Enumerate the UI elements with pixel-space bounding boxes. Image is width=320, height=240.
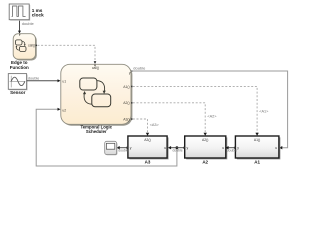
svg-text:u1: u1	[62, 79, 66, 83]
svg-text:A1(): A1()	[254, 138, 260, 142]
port nub A2() output	[131, 102, 132, 104]
svg-text:u: u	[222, 146, 224, 150]
cycle arrow left	[84, 94, 91, 105]
block A3	[128, 136, 169, 165]
svg-text:y: y	[187, 146, 189, 150]
state 2	[92, 94, 111, 107]
block A1	[235, 136, 280, 165]
svg-text:double: double	[133, 66, 146, 71]
state 1	[80, 78, 97, 90]
svg-text:A1: A1	[254, 160, 260, 165]
svg-text:u2: u2	[62, 109, 66, 113]
wire A1 to A2	[225, 146, 237, 152]
svg-text:<A3>: <A3>	[150, 123, 160, 127]
dashed wire A3()	[133, 119, 160, 136]
wire A3 to Scope	[117, 146, 129, 152]
svg-text:double: double	[118, 148, 128, 152]
chart Edge to Function	[13, 34, 37, 61]
svg-text:call(): call()	[28, 44, 35, 48]
chart input arrow	[19, 34, 21, 36]
dashed wire A1()	[133, 86, 269, 135]
wire y output to A1	[131, 66, 288, 150]
cycle arrow right	[97, 81, 104, 92]
port nub A1() output	[131, 86, 132, 88]
svg-text:double: double	[28, 77, 39, 81]
block Pulse Generator (1 ms clock)	[9, 4, 30, 21]
label Edge to Function	[10, 60, 29, 70]
mini state 1	[15, 40, 22, 45]
svg-text:A1(): A1()	[123, 85, 129, 89]
label Temporal Logic Scheduler	[80, 124, 112, 134]
port nub A3 output	[126, 147, 128, 149]
svg-text:u: u	[275, 146, 277, 150]
svg-text:A3: A3	[145, 160, 151, 165]
mini arrows	[22, 41, 25, 45]
chart Temporal Logic Scheduler	[61, 64, 133, 125]
svg-text:call(): call()	[92, 66, 99, 70]
chart trigger arrow	[94, 65, 96, 67]
svg-text:A3(): A3()	[144, 138, 150, 142]
port nub A2 output	[183, 147, 185, 149]
svg-text:y: y	[129, 71, 131, 75]
svg-text:A3(): A3()	[123, 117, 129, 121]
svg-text:Function: Function	[10, 65, 29, 70]
svg-text:A2(): A2()	[123, 101, 129, 105]
port nub A1 output	[234, 147, 236, 149]
svg-text:A2(): A2()	[202, 138, 208, 142]
svg-text:A2: A2	[202, 160, 208, 165]
svg-text:double: double	[173, 148, 183, 152]
svg-text:Scheduler: Scheduler	[86, 129, 107, 134]
wire Sensor to u1	[27, 77, 61, 83]
port nub A3() output	[131, 118, 132, 120]
svg-text:double: double	[227, 148, 237, 152]
block Sensor	[8, 74, 27, 91]
label 1 ms clock	[32, 8, 44, 18]
block Scope	[105, 141, 118, 155]
svg-text:y: y	[237, 146, 239, 150]
svg-text:y: y	[130, 146, 132, 150]
port nub y output	[131, 70, 132, 72]
dashed wire call() to scheduler	[37, 45, 96, 64]
svg-text:u: u	[164, 146, 166, 150]
svg-text:<A1>: <A1>	[259, 110, 269, 114]
svg-text:<A2>: <A2>	[207, 115, 217, 119]
svg-text:Sensor: Sensor	[10, 90, 26, 95]
mini state 2	[19, 46, 26, 51]
wire A2 to A3	[168, 146, 185, 152]
block A2	[185, 136, 228, 165]
svg-text:double: double	[22, 21, 35, 26]
dashed wire A2()	[133, 103, 217, 136]
wire pulse to chart	[18, 20, 34, 34]
svg-text:clock: clock	[32, 13, 44, 18]
port nub call() output	[36, 45, 37, 47]
feedback wire to u2	[36, 108, 178, 166]
